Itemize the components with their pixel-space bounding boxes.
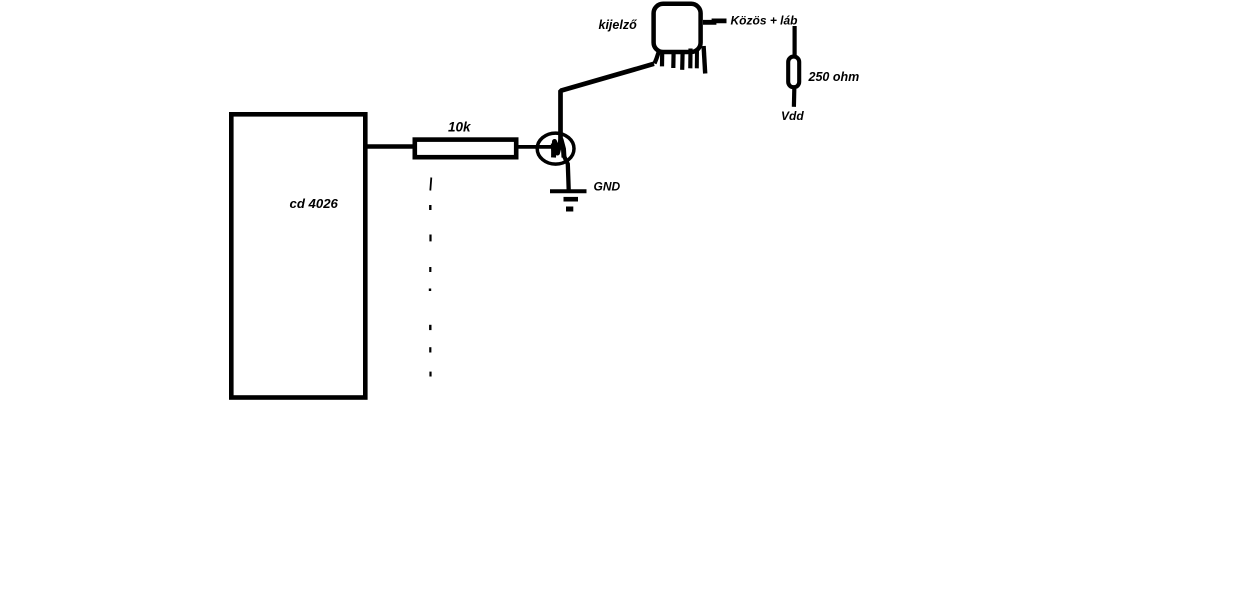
- transistor Q1: [537, 133, 574, 164]
- resistor R2 250 ohm: [788, 57, 799, 88]
- wire display to Közös: [703, 21, 727, 22]
- wire transistor emitter: [564, 155, 569, 190]
- wire label to resistor: [792, 26, 796, 56]
- svg-text:Közös + láb: Közös + láb: [731, 13, 798, 27]
- svg-text:cd 4026: cd 4026: [290, 196, 339, 211]
- wire IC to resistor: [367, 144, 414, 149]
- wire resistor to transistor base: [519, 145, 558, 149]
- svg-text:kijelző: kijelző: [599, 18, 638, 32]
- dashed pencil line: [430, 178, 431, 377]
- wire transistor collector up and diagonal to display: [561, 64, 655, 145]
- wire resistor to Vdd: [792, 89, 797, 107]
- svg-text:10k: 10k: [448, 119, 472, 134]
- resistor R1 10k: [415, 140, 516, 158]
- svg-text:250 ohm: 250 ohm: [808, 70, 860, 84]
- IC box cd 4026: [231, 114, 365, 397]
- svg-text:Vdd: Vdd: [781, 109, 804, 123]
- display pins: [655, 46, 706, 74]
- ground: [550, 191, 587, 209]
- svg-text:GND: GND: [594, 180, 621, 194]
- display box: [654, 4, 701, 52]
